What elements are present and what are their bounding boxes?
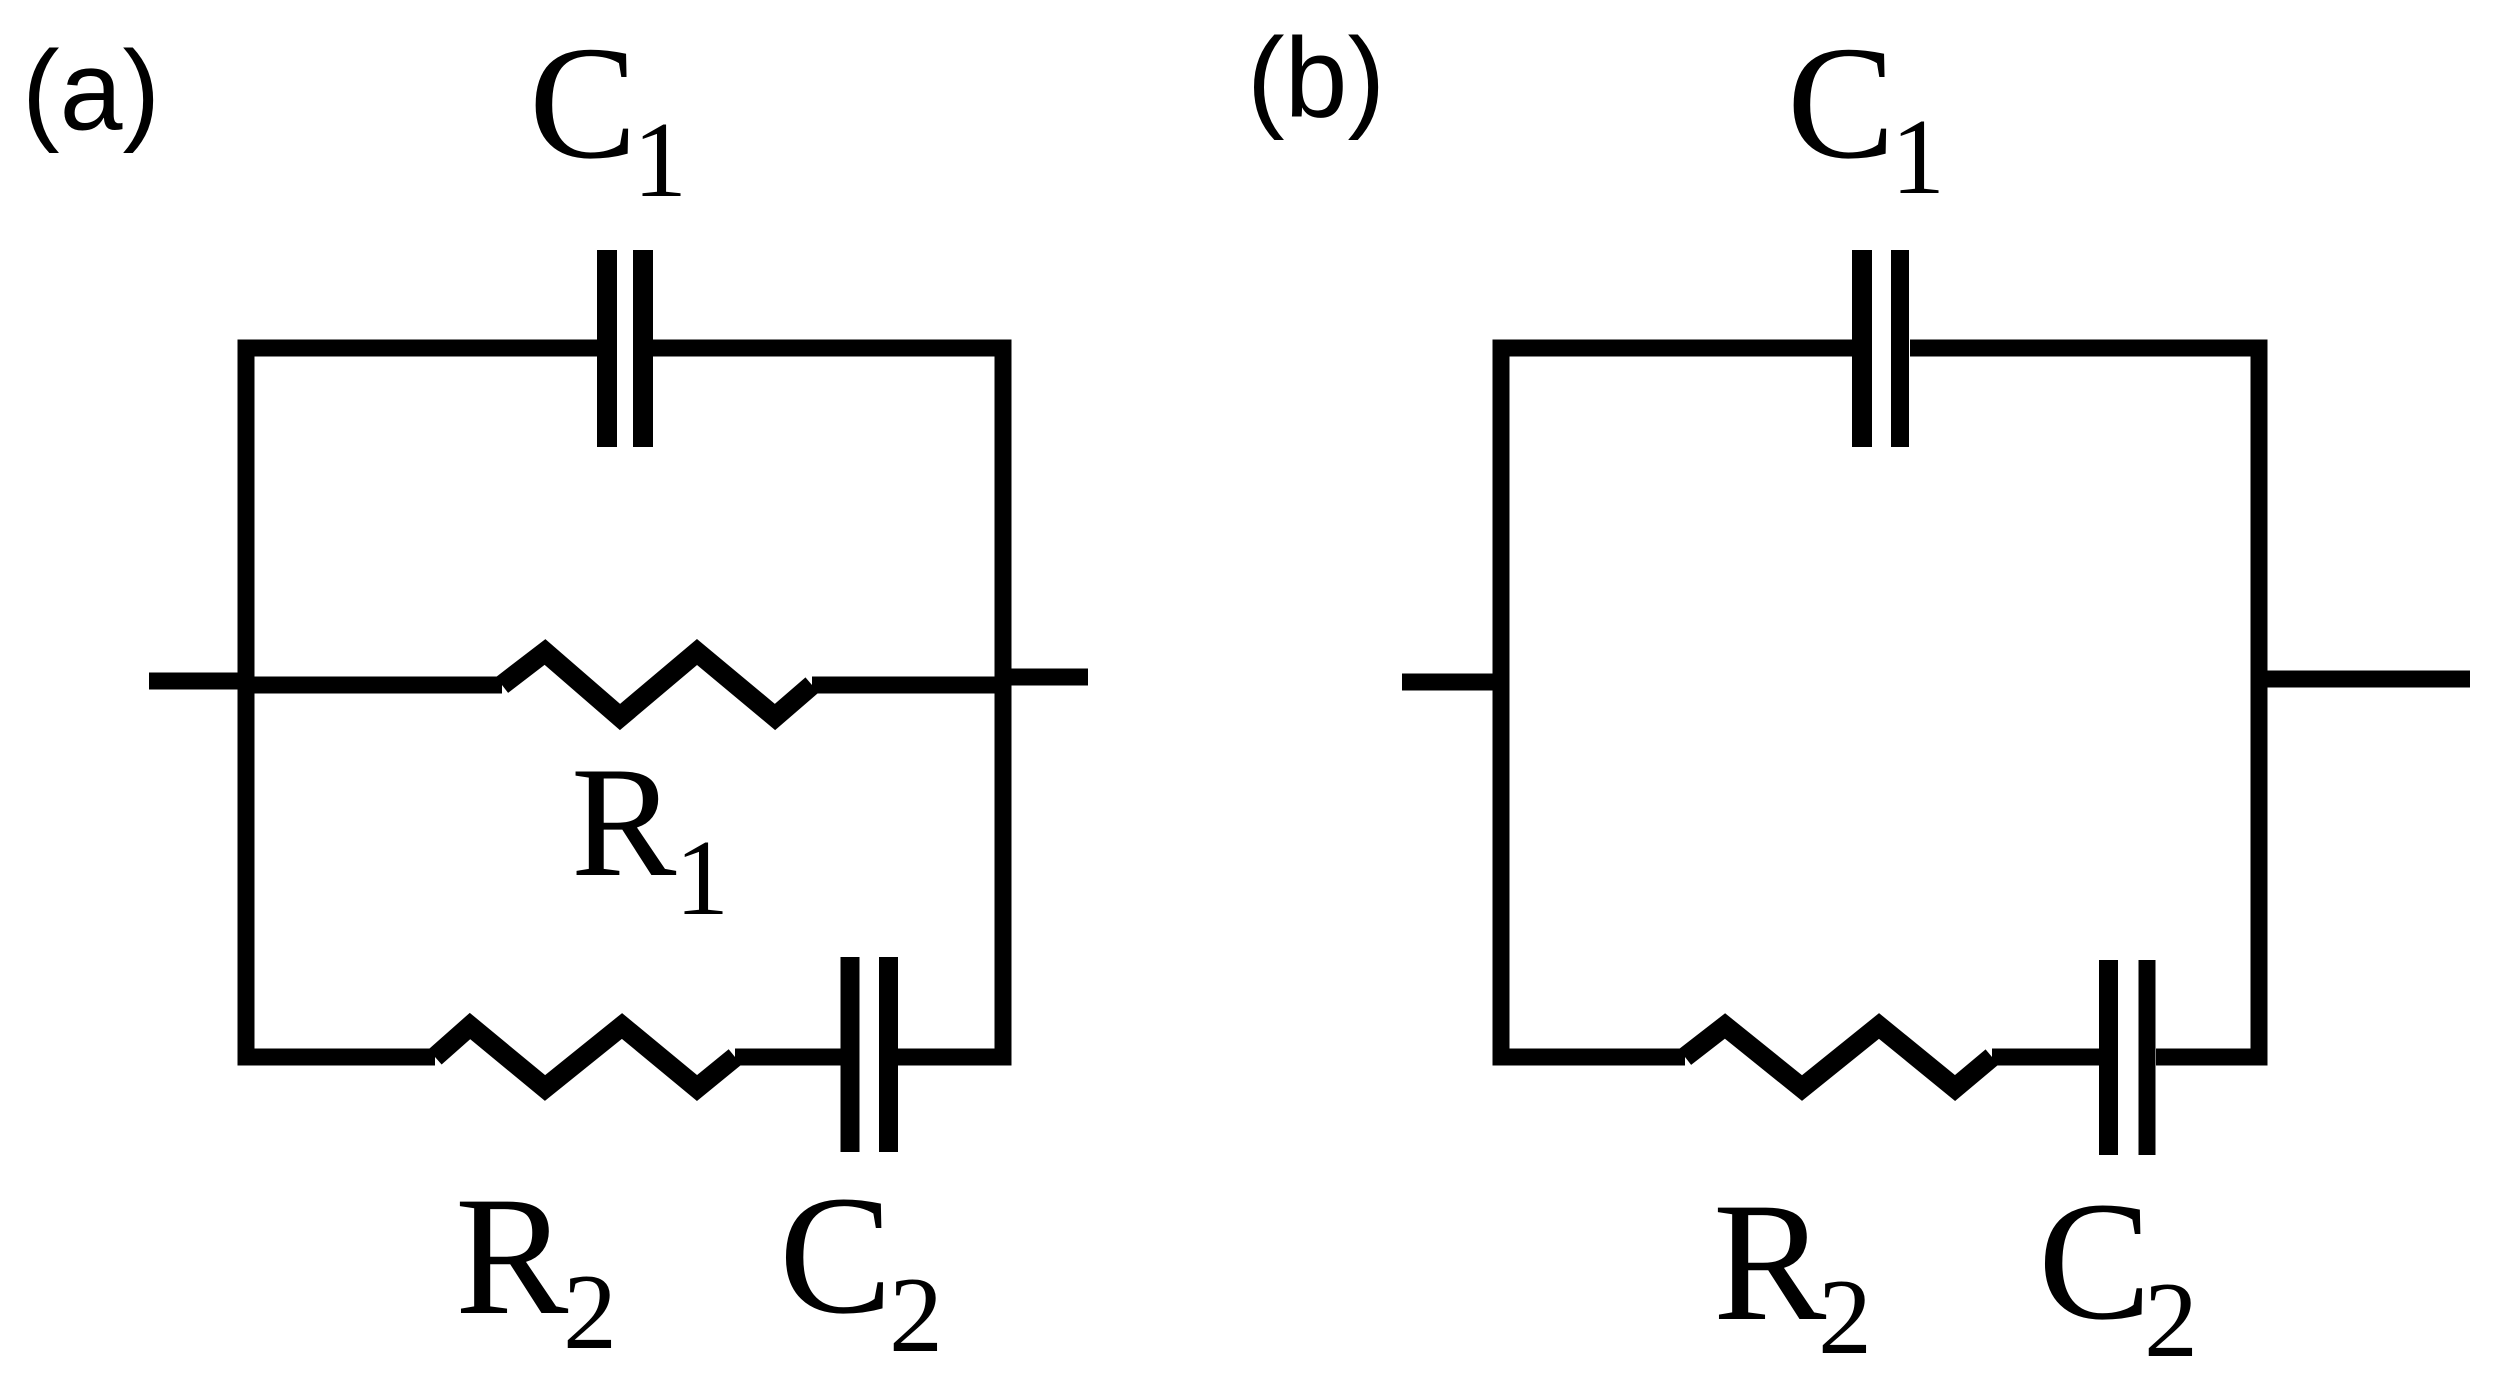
svg-text:C: C <box>2038 1167 2151 1355</box>
wire: (a) right terminal lead <box>995 669 1088 686</box>
wire: (b) bottom left segment <box>1501 1049 1685 1066</box>
svg-text:2: 2 <box>889 1256 943 1375</box>
capacitor C1 (panel a) <box>607 250 643 447</box>
label C1 (panel a) <box>529 14 687 220</box>
resistor R2 zigzag (panel b) <box>1685 1026 1992 1088</box>
label R1 (panel a) <box>571 735 729 938</box>
capacitor C2 (panel a) <box>850 957 889 1152</box>
capacitor C2 (panel b) <box>2109 960 2148 1155</box>
svg-text:2: 2 <box>563 1253 617 1372</box>
wire: (b) bottom middle segment <box>1992 1049 2099 1066</box>
label R2 (panel a) <box>455 1162 617 1372</box>
wire: (a) bottom middle segment <box>735 1049 841 1066</box>
resistor R2 zigzag (panel a) <box>435 1026 735 1088</box>
wire: (a) top right segment <box>652 340 1003 357</box>
svg-text:R: R <box>455 1162 569 1350</box>
wire: (b) left vertical <box>1493 340 1510 1066</box>
svg-text:2: 2 <box>2144 1261 2198 1380</box>
svg-text:1: 1 <box>1891 98 1945 217</box>
wire: (b) bottom right segment <box>2156 1049 2259 1066</box>
wire: (a) top left segment <box>246 340 597 357</box>
svg-text:2: 2 <box>1818 1258 1872 1377</box>
svg-text:(a): (a) <box>22 28 160 154</box>
wire: (a) left terminal lead <box>149 673 254 690</box>
svg-text:R: R <box>571 735 677 910</box>
wire: (b) right vertical <box>2251 340 2268 1066</box>
resistor R1 zigzag (panel a) <box>502 652 812 717</box>
wire: (a) left vertical <box>238 340 255 1066</box>
wire: (a) bottom right segment <box>898 1049 1003 1066</box>
wire: (a) middle right segment <box>812 677 1011 694</box>
svg-text:C: C <box>779 1161 892 1349</box>
label C2 (panel a) <box>779 1161 943 1375</box>
capacitor C1 (panel b) <box>1862 250 1900 447</box>
svg-text:C: C <box>529 14 637 193</box>
svg-text:1: 1 <box>633 101 687 220</box>
wire: (b) top left segment <box>1501 340 1852 357</box>
svg-text:(b): (b) <box>1247 15 1385 141</box>
wire: (b) left terminal lead <box>1402 674 1501 691</box>
label C2 (panel b) <box>2038 1167 2198 1380</box>
label C1 (panel b) <box>1787 14 1945 217</box>
wire: (b) top right segment <box>1910 340 2259 357</box>
svg-text:1: 1 <box>675 819 729 938</box>
svg-text:R: R <box>1713 1168 1827 1356</box>
wire: (b) right terminal lead <box>2259 671 2470 688</box>
wire: (a) bottom left segment <box>246 1049 435 1066</box>
wire: (a) right vertical <box>995 340 1012 1066</box>
svg-text:C: C <box>1787 14 1895 193</box>
wire: (a) middle left segment <box>238 677 502 694</box>
label R2 (panel b) <box>1713 1168 1872 1377</box>
